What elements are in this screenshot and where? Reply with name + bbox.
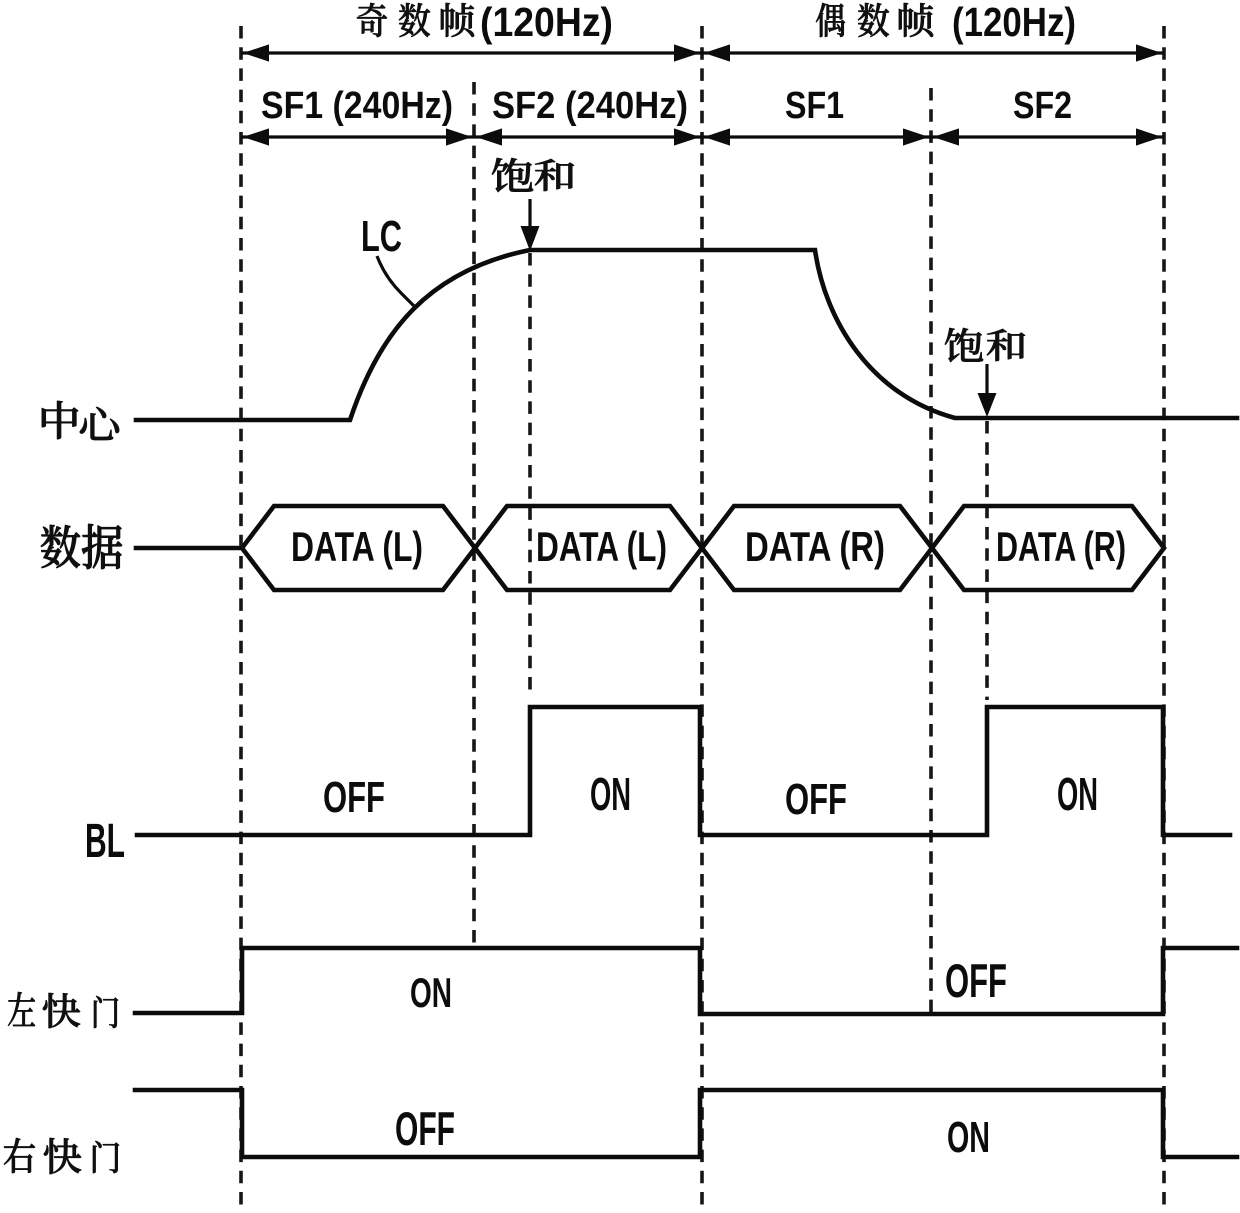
svg-text:SF1: SF1 [785,85,844,127]
svg-text:SF1 (240Hz): SF1 (240Hz) [261,85,453,127]
svg-text:LC: LC [361,212,402,261]
span arrow SF2 even [931,128,1164,145]
right shutter waveform [135,1090,1237,1157]
svg-text:OFF: OFF [785,775,847,824]
svg-text:SF2: SF2 [1013,85,1072,127]
dashed timeline t4 (even frame end) [1162,26,1166,1210]
svg-text:(120Hz): (120Hz) [952,0,1076,45]
label 右快门 (right shutter) [4,1138,119,1174]
svg-text:OFF: OFF [945,954,1007,1007]
svg-text:ON: ON [1057,768,1098,820]
svg-text:SF2 (240Hz): SF2 (240Hz) [492,85,688,127]
dashed timeline t2 (even frame start) [700,26,704,1210]
label saturation 2 饱和 [945,328,1025,362]
svg-text:OFF: OFF [395,1102,455,1155]
svg-text:DATA (L): DATA (L) [536,523,667,570]
label 中心 (center) [42,401,119,440]
data lead wire [136,546,242,551]
label odd frame 奇数帧 [357,3,474,37]
svg-text:ON: ON [947,1113,990,1162]
backlight waveform BL [137,707,1230,835]
svg-text:BL: BL [85,815,125,868]
span arrow odd frame [241,44,702,61]
label even frame 偶数帧 [816,3,933,37]
saturation arrow 1 [521,199,540,251]
saturation arrow 2 [978,364,997,417]
svg-text:DATA (R): DATA (R) [996,523,1126,570]
label 左快门 (left shutter) [8,992,118,1028]
svg-text:(120Hz): (120Hz) [480,0,613,45]
span arrow SF2 odd [474,128,702,145]
svg-text:OFF: OFF [323,773,385,822]
span arrow SF1 odd [241,128,474,145]
data hexagon DATA(L) sub-frame1 [242,506,475,590]
svg-text:DATA (L): DATA (L) [291,523,423,570]
saturation dashed line 1 [528,253,532,697]
data hexagon DATA(R) sub-frame1 [702,506,932,590]
LC response curve [136,250,1237,420]
svg-text:ON: ON [410,969,452,1016]
span arrow even frame [702,44,1164,61]
dashed timeline t1 (SF1/SF2 boundary odd) [472,82,476,947]
dashed timeline t3 (SF1/SF2 boundary even) [929,88,933,1012]
saturation dashed line 2 [985,421,989,700]
svg-text:DATA (R): DATA (R) [745,523,885,570]
LC leader line [377,256,414,306]
data hexagon DATA(L) sub-frame2 [475,506,702,590]
label saturation 1 饱和 [492,158,574,192]
left shutter waveform [135,948,1237,1014]
data hexagon DATA(R) sub-frame2 [932,506,1164,590]
svg-text:ON: ON [590,768,631,820]
label 数据 (data) [41,524,122,569]
dashed timeline t0 (odd frame start) [239,26,243,1210]
span arrow SF1 even [702,128,931,145]
